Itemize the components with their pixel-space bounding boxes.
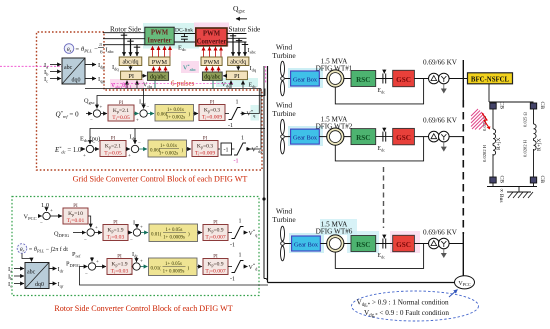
wire PI to dq/abc left [142, 75, 147, 77]
dashed continuation line between WT2 and WT6 [383, 167, 385, 228]
svg-text:Ti=0.009: Ti=0.009 [202, 115, 222, 121]
abc/dq block right [228, 57, 249, 66]
svg-text:0.025 Ω: 0.025 Ω [523, 112, 528, 127]
svg-text:PI: PI [203, 137, 208, 142]
svg-text:PI: PI [213, 221, 218, 226]
wires up into PI right from labels [231, 81, 243, 88]
circuit breaker CB bottom right [530, 176, 545, 184]
svg-text:Ti=0.05: Ti=0.05 [112, 115, 130, 121]
gear box 2 [291, 129, 320, 144]
label 0.69/66 KV 6 [423, 229, 458, 237]
svg-text:Vdq: Vdq [143, 83, 153, 90]
wire network top rail [489, 101, 534, 103]
PWM converter block [196, 28, 227, 46]
svg-text:Converter: Converter [197, 39, 227, 46]
highlight band cyan behind PWM inverter [143, 23, 199, 49]
wire V*q return up [243, 89, 259, 114]
PI controller block row1 a [101, 101, 134, 121]
dc capacitor 6 [376, 235, 393, 260]
highlight cyan behind gear box WT2 [288, 126, 323, 146]
highlight band pink behind PWM converter [194, 23, 229, 47]
RSC block 2 [344, 129, 376, 145]
capacitor Edc dc-link [181, 34, 188, 43]
svg-text:Kp=2.1: Kp=2.1 [105, 144, 121, 150]
svg-text:0.69/66 KV: 0.69/66 KV [423, 117, 458, 125]
rotor side converter control block dashed border [12, 197, 259, 296]
magenta dashed vertical wire near stator [265, 66, 267, 84]
svg-text:Ti=0.007: Ti=0.007 [205, 235, 225, 241]
svg-text:PI: PI [128, 73, 134, 80]
svg-text:1+ 0.002s: 1+ 0.002s [166, 116, 185, 121]
svg-text:PI: PI [113, 221, 118, 226]
svg-text:−: − [130, 238, 133, 243]
wind turbine 2 blades [281, 119, 291, 154]
PI controller block row2 a [94, 137, 126, 157]
DFIG generator 2 [319, 128, 344, 145]
label Iabc rotor [106, 47, 114, 55]
wire left branch upper [492, 109, 494, 129]
svg-text:−: − [147, 106, 150, 111]
ground symbol [507, 187, 533, 199]
dq/abc block right [202, 72, 222, 81]
dc capacitor 2 [376, 128, 393, 153]
collector bus vertical line [462, 60, 464, 276]
svg-text:-1: -1 [230, 277, 235, 283]
wire dc link rails [174, 34, 196, 43]
svg-text:BFC-NSFCL: BFC-NSFCL [471, 76, 510, 83]
wire stator 3-phase lines [227, 34, 247, 43]
PI controller rotor row A [51, 204, 89, 224]
svg-text:Turbine: Turbine [272, 109, 296, 118]
label Edc dc-link [178, 45, 186, 53]
highlight cyan behind V*q label [251, 105, 260, 121]
label DC-link [175, 28, 193, 34]
VPCC measurement ellipse [455, 276, 475, 289]
PWM inverter block [145, 27, 174, 45]
label 1.5 MVA DFIG WT#2 [316, 116, 353, 131]
svg-text:PWM: PWM [152, 59, 168, 66]
svg-text:-1: -1 [234, 159, 239, 165]
svg-text:abc: abc [27, 270, 36, 276]
highlight cyan behind gear box WT1 [288, 68, 323, 88]
label Edc right measurement [249, 83, 257, 90]
label 0.69/66 KV 1 [423, 59, 458, 67]
svg-text:Kp=2.1: Kp=2.1 [113, 108, 129, 114]
svg-text:θs: θs [67, 47, 72, 53]
summation node rotor row C b [130, 260, 144, 278]
condition annotation ellipse [352, 291, 479, 321]
svg-text:Kp=1.9: Kp=1.9 [111, 262, 127, 268]
saturation limiter row1 [225, 100, 241, 130]
wire abc/dq to PI right [237, 66, 239, 71]
wire stator loop 1 [335, 79, 423, 104]
svg-text:−: − [40, 222, 43, 227]
label Iqr feed rotor row B [133, 220, 139, 229]
svg-text:+: + [50, 209, 53, 214]
svg-text:DFIG WT#6: DFIG WT#6 [316, 227, 353, 235]
GSC block 1 [393, 70, 415, 86]
label V*dr output rotor row C [244, 263, 259, 272]
label infinite Bus [498, 189, 504, 203]
svg-text:RSC: RSC [356, 134, 370, 142]
labels Ia Ib Ic grid side with arrows [44, 62, 61, 84]
wire feedback rail top of grid rows [85, 88, 261, 90]
wire right branch lower [533, 149, 535, 177]
svg-text:PI: PI [73, 204, 78, 209]
svg-text:Gear Box: Gear Box [293, 77, 318, 84]
wire rotor 3-phase lines [103, 33, 145, 45]
highlight cyan behind gear box WT6 [289, 233, 324, 253]
svg-text:= θPLL − ∫2π f dt: = θPLL − ∫2π f dt [29, 246, 69, 254]
label 1.5 MVA DFIG WT#1 [316, 58, 353, 73]
svg-text:1: 1 [239, 219, 242, 225]
label V*dg output row2 [246, 145, 263, 154]
svg-text:Vdq: Vdq [222, 82, 232, 89]
red firing arrows PWM to inverter [153, 46, 171, 56]
svg-text:Gear Box: Gear Box [293, 135, 318, 142]
arrow annotation to VPCC [449, 290, 458, 298]
saturation limiter rotor row C [228, 253, 244, 283]
label Edcref = 1.0 [54, 146, 82, 155]
wire left branch lower [492, 154, 494, 177]
abc/dq block left [119, 57, 142, 66]
label VPCC input [24, 214, 42, 222]
impedance values right branch [523, 112, 528, 157]
measurement wire pair from stator to PCC [264, 66, 455, 283]
svg-text:Turbine: Turbine [272, 215, 296, 224]
svg-text:1+ 0.0009s: 1+ 0.0009s [163, 236, 185, 241]
svg-text:1+ 0.002s: 1+ 0.002s [159, 152, 178, 157]
lead-lag block rotor row C [141, 258, 198, 276]
svg-text:0.0282 H: 0.0282 H [523, 139, 528, 157]
svg-text:0.01(: 0.01( [151, 267, 162, 272]
label 1.5 MVA DFIG WT#6 [316, 221, 353, 236]
circuit breaker CB top right [530, 102, 545, 110]
summation node rotor row B a [84, 226, 98, 243]
svg-text:-1: -1 [230, 243, 235, 249]
DFIG generator 1 [319, 70, 344, 87]
wind turbine 6 blades [281, 226, 292, 261]
summation node row1 b [134, 106, 150, 124]
highlight band cyan behind Vdq Edc labels [216, 78, 258, 87]
svg-text:Ti=0.03: Ti=0.03 [107, 235, 125, 241]
summation node rotor row A [40, 209, 53, 227]
svg-text:Kp=10: Kp=10 [68, 211, 83, 217]
svg-text:E*dc = 1.0: E*dc = 1.0 [54, 146, 82, 155]
svg-text:Turbine: Turbine [272, 51, 296, 60]
svg-text:abc: abc [64, 65, 73, 71]
red firing arrows PWM to converter [204, 47, 222, 57]
PI controller block row2 b [187, 137, 219, 157]
highlight pink behind WT6 GSC [390, 231, 420, 253]
magenta dashed distribution wire [113, 83, 233, 85]
svg-text:Edc: Edc [378, 253, 386, 259]
svg-text:+: + [96, 260, 99, 265]
gear box 6 [292, 236, 321, 251]
label Idq left [112, 64, 119, 72]
label Vdq right [222, 82, 232, 89]
label 6-pulses [171, 80, 195, 88]
PI controller rotor row C b [198, 255, 229, 275]
svg-text:CB: CB [499, 176, 505, 184]
svg-text:VPCC: VPCC [458, 281, 470, 287]
wire stator loop 2 [335, 137, 423, 161]
svg-text:Stator Side: Stator Side [229, 26, 261, 34]
label Qgsc with arrow [233, 4, 247, 19]
label Pref reference rotor row C [72, 251, 92, 262]
dc capacitor 1 [376, 70, 393, 95]
svg-text:PI: PI [111, 137, 116, 142]
wind turbine 1 blades [281, 61, 291, 96]
output arrows Idg Iqg [85, 62, 105, 84]
label QDFIG input rotor row B [54, 231, 86, 239]
svg-text:1.0: 1.0 [41, 202, 49, 209]
svg-text:0.0282 H: 0.0282 H [482, 144, 487, 162]
label 1.0 reference rotor row A [41, 202, 49, 211]
label Rotor Side [110, 26, 141, 34]
svg-text:1: 1 [236, 100, 239, 106]
transformer 1 [414, 73, 463, 93]
wire rotor feedback bottom rail [80, 267, 269, 286]
svg-text:Kp=1.9: Kp=1.9 [107, 228, 123, 234]
wire V*d return up [250, 89, 261, 150]
saturation limiter row2 [232, 136, 247, 165]
svg-text:DC-link: DC-link [175, 28, 193, 34]
svg-text:PI: PI [234, 73, 240, 80]
label Idg feed row2 [130, 129, 137, 145]
svg-text:0.01(: 0.01( [151, 233, 162, 238]
lead-lag block row1 [148, 105, 194, 122]
resistor R+jX left [493, 129, 502, 155]
circuit breaker CB top left [490, 102, 505, 110]
svg-text:GSC: GSC [396, 241, 411, 249]
wire stator current taps into abc/dq [230, 34, 248, 57]
svg-text:θr: θr [20, 247, 25, 253]
PI controller block row1 b [194, 101, 226, 121]
svg-text:abc/dq: abc/dq [230, 60, 246, 66]
theta_s circle symbol [64, 42, 104, 55]
DFIG generator 6 [320, 235, 344, 252]
summation node row2 a [81, 142, 96, 160]
resistor R+jX right [534, 124, 543, 151]
BFC-NSFCL block [463, 73, 512, 84]
summation node rotor row C a [85, 260, 99, 277]
svg-text:dq/abc: dq/abc [204, 75, 220, 81]
wire Edc feedback rail row2 [80, 129, 265, 145]
wire right branch upper [533, 109, 535, 124]
svg-text:+: + [95, 226, 98, 231]
wire abc/dq to PI left [130, 66, 132, 71]
svg-text:1+ 0.0009s: 1+ 0.0009s [163, 270, 185, 275]
dq/abc block left [147, 72, 168, 81]
label V*qr output rotor row B [244, 229, 259, 238]
labels Ia Ib Ic rotor side with arrows [8, 266, 24, 289]
svg-text:GSC: GSC [396, 76, 411, 84]
svg-text:+: + [140, 260, 143, 265]
wind turbine 1 label [272, 43, 296, 61]
wire network bottom rail [487, 183, 537, 187]
svg-text:Edc: Edc [378, 146, 386, 152]
PI controller rotor row B b [198, 221, 229, 241]
svg-text:dq/abc: dq/abc [150, 75, 166, 81]
label Iqg feed row1 [139, 89, 146, 109]
svg-text:Ti=0.01: Ti=0.01 [67, 218, 85, 224]
svg-text:RSC: RSC [356, 76, 370, 84]
wire rotor current taps into abc/dq [121, 33, 140, 56]
PWM block left [149, 57, 170, 66]
svg-text:−: − [93, 142, 96, 147]
wind turbine 6 label [272, 207, 296, 225]
svg-text:CB: CB [539, 176, 545, 184]
svg-text:+: + [136, 119, 139, 124]
GSC block 2 [393, 128, 415, 144]
svg-text:dq0: dq0 [35, 282, 44, 288]
wire stator loop 6 [335, 244, 423, 269]
svg-text:PI: PI [119, 101, 124, 106]
svg-text:abc/dq: abc/dq [123, 60, 139, 66]
summation node row2 b [126, 141, 141, 159]
wind turbine 2 label [272, 101, 296, 119]
PI block left [121, 71, 142, 80]
svg-text:−: − [84, 238, 87, 243]
highlight band pink behind V*abc label [181, 61, 199, 73]
abc/dq0 transform block rotor side [25, 263, 49, 289]
lead-lag block rotor row B [141, 224, 198, 242]
svg-text:CB: CB [539, 102, 545, 110]
red firing arrows dq/abc to PWM right [207, 67, 219, 72]
svg-text:−: − [85, 272, 88, 277]
svg-text:Gear Box: Gear Box [294, 242, 319, 249]
wire teal Vdq return right [212, 81, 214, 89]
svg-text:Rotor Side Converter Control B: Rotor Side Converter Control Block of ea… [54, 304, 232, 313]
svg-text:6: 6 [100, 49, 103, 55]
gear box 1 [291, 71, 320, 86]
transformer 2 [414, 131, 463, 151]
svg-text:0.69/66 KV: 0.69/66 KV [423, 59, 458, 67]
svg-text:-1: -1 [224, 148, 229, 154]
RSC block 1 [344, 71, 376, 87]
lead-lag block row2 [139, 140, 187, 157]
svg-text:+: + [100, 106, 103, 111]
svg-text:CB: CB [499, 102, 505, 110]
svg-text:Kp=0.9: Kp=0.9 [207, 228, 223, 234]
label Idq right [250, 65, 257, 73]
svg-text:1: 1 [241, 136, 244, 142]
PI block right [226, 71, 247, 80]
PI controller rotor row B a [95, 221, 128, 241]
svg-text:Kp=0.3: Kp=0.3 [204, 108, 220, 114]
wires up into PI left from labels [127, 81, 137, 88]
svg-text:RSC: RSC [356, 241, 370, 249]
svg-text:R+jX: R+jX [537, 139, 543, 151]
label Vabc thetaPLL magenta [111, 83, 133, 90]
svg-text:Ti=0.05: Ti=0.05 [104, 151, 122, 157]
wire Qgsc feedback rail row1 [84, 89, 265, 109]
label V*qg output row1 [241, 109, 257, 118]
output arrows Idr Iqr [49, 266, 64, 289]
svg-text:PI: PI [210, 101, 215, 106]
circuit breaker CB bottom left [490, 176, 505, 184]
svg-text:PI: PI [117, 255, 122, 260]
svg-text:PWM: PWM [203, 31, 221, 38]
junction node on measurement wire [262, 197, 265, 200]
wire teal Vdq return left [154, 81, 156, 89]
label Vdq left [143, 83, 153, 90]
svg-text:−: − [90, 119, 93, 124]
saturation limiter rotor row B [228, 219, 244, 249]
svg-text:0.69/66 KV: 0.69/66 KV [423, 229, 458, 237]
svg-text:R+jX: R+jX [496, 138, 502, 150]
highlight cyan behind WT6 label and RSC [320, 219, 379, 253]
magenta dashed wire Vabc to abc/dq0 [0, 65, 62, 67]
svg-text:PWM: PWM [204, 59, 220, 66]
caption rotor side block [54, 304, 232, 313]
svg-text:dq0: dq0 [72, 78, 81, 84]
abc/dq0 transform block grid side [62, 58, 85, 84]
svg-text:Kp=0.9: Kp=0.9 [207, 262, 223, 268]
label PDFIG input rotor row C [66, 261, 88, 269]
GSC block 6 [393, 235, 415, 251]
summation node row1 a [86, 106, 103, 124]
svg-text:Ti=0.03: Ti=0.03 [111, 269, 129, 275]
svg-text:+: + [140, 226, 143, 231]
svg-text:PWM: PWM [151, 30, 169, 37]
wire rowA output down to rowB sum [88, 216, 91, 228]
svg-text:Edc: Edc [249, 83, 257, 90]
svg-text:Kp=0.3: Kp=0.3 [197, 144, 213, 150]
impedance values left branch [482, 116, 487, 162]
grid side converter control block dashed border [37, 32, 263, 170]
gain -1 block row2 [218, 143, 232, 155]
wire BFC to grid network [488, 84, 490, 102]
svg-text:Ti=0.007: Ti=0.007 [205, 269, 225, 275]
svg-text:Ti=0.009: Ti=0.009 [195, 151, 215, 157]
label Stator Side [229, 26, 261, 34]
svg-text:−: − [138, 141, 141, 146]
svg-text:1: 1 [239, 253, 242, 259]
wire theta_r into abc/dq0 [22, 254, 32, 262]
label 0.69/66 KV 2 [423, 117, 458, 125]
svg-text:GSC: GSC [396, 134, 411, 142]
svg-text:+: + [128, 154, 131, 159]
PWM block right [201, 57, 222, 66]
fault symbol hatching [471, 109, 486, 130]
highlight band pink behind Vabc theta label [110, 79, 144, 88]
label Qref = 0 [56, 110, 80, 119]
svg-text:∞ Bus: ∞ Bus [498, 189, 504, 203]
red firing arrows dq/abc to PWM left [154, 67, 166, 72]
fault lightning arrow [482, 113, 490, 130]
svg-text:Edc: Edc [378, 88, 386, 94]
label V*abc teal [183, 64, 196, 73]
transformer 6 [414, 238, 463, 258]
wire PI to dq/abc right [223, 75, 226, 77]
RSC block 6 [344, 236, 376, 252]
label Iabc stator [248, 47, 256, 55]
label Idr feed rotor row C [132, 251, 138, 262]
summation node rotor row B b [128, 226, 143, 244]
PI controller rotor row C a [96, 255, 132, 275]
svg-text:Grid Side Converter Control Bl: Grid Side Converter Control Block of eac… [73, 175, 248, 184]
svg-text:Inverter: Inverter [147, 38, 171, 45]
svg-text:Q*ref = 0: Q*ref = 0 [56, 110, 80, 119]
svg-text:−: − [130, 272, 133, 277]
theta_r circle symbol [17, 244, 68, 254]
caption grid side block [73, 175, 248, 184]
svg-text:PI: PI [213, 255, 218, 260]
svg-text:+: + [83, 154, 86, 159]
